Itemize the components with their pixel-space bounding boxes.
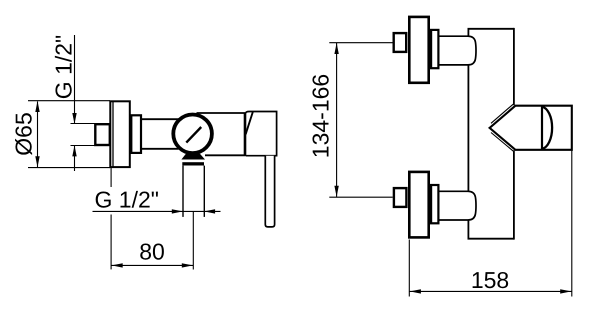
- lever rod: [265, 156, 274, 227]
- body right edge lower: [513, 150, 515, 239]
- dimension G 1/2" top dim line upper segment: [74, 35, 76, 124]
- dimension Ø65 extension line bottom: [28, 167, 110, 169]
- handle base diagonal: [246, 112, 253, 134]
- arrow left at pipe right: [204, 209, 215, 213]
- 134-166 extension line bottom: [329, 196, 392, 198]
- center extension line below outlet: [192, 211, 194, 269]
- arrow down 134-166: [334, 186, 338, 197]
- bottom escutcheon: [409, 172, 428, 238]
- arrow left 158: [410, 289, 421, 293]
- pentagon upper chamfer thin line: [491, 104, 514, 123]
- body right bottom line: [205, 154, 246, 156]
- lever end D flat line: [541, 106, 543, 150]
- dimension G 1/2" top dim line lower segment: [74, 146, 76, 171]
- arrow down G1/2 top: [72, 113, 76, 124]
- 80 extension line left upper segment: [110, 168, 112, 187]
- lever end D arc: [542, 107, 552, 149]
- top escutcheon: [409, 17, 428, 83]
- handle mark diagonal: [186, 127, 201, 143]
- arrow left 80: [112, 263, 123, 267]
- 80 dim line: [111, 264, 193, 266]
- wall plate: [110, 101, 130, 167]
- step ring: [131, 115, 141, 153]
- body right top line: [197, 112, 246, 114]
- 158 extension line right: [571, 151, 573, 297]
- dimension Ø65 dim line: [37, 102, 39, 168]
- pentagon lower chamfer thin line: [491, 133, 514, 152]
- lever pentagon: [490, 106, 572, 150]
- top pipe with bell cap: [440, 36, 477, 65]
- body bottom edge: [468, 238, 514, 240]
- outlet nut bar (black): [182, 162, 204, 165]
- 134-166 extension line top: [329, 42, 392, 44]
- body left edge segment top: [467, 29, 469, 36]
- body top edge: [468, 28, 514, 30]
- joint thick vertical line: [244, 113, 247, 156]
- body left edge segment middle: [467, 65, 469, 191]
- arrow down Ø65: [35, 156, 39, 167]
- 158 dim line: [410, 290, 572, 292]
- body left edge segment bottom: [467, 220, 469, 239]
- outlet pipe left line: [182, 166, 184, 217]
- svg-text:80: 80: [139, 239, 165, 265]
- top step ring: [431, 30, 438, 68]
- arrow right 158: [560, 289, 571, 293]
- body outline: [468, 28, 514, 240]
- bottom fitting square nut: [394, 188, 407, 207]
- svg-text:G 1/2": G 1/2": [51, 35, 77, 99]
- body cylinder top line: [142, 118, 179, 120]
- cartridge circle: [173, 115, 212, 154]
- outlet pipe right line: [203, 166, 205, 217]
- 134-166 dim line: [336, 43, 338, 197]
- body right edge upper: [513, 28, 515, 105]
- 80 extension line left lower segment: [110, 215, 112, 270]
- bottom pipe with bell cap: [440, 191, 477, 220]
- arrow right 80: [182, 263, 193, 267]
- svg-text:158: 158: [471, 267, 509, 293]
- outlet collar (black): [181, 154, 205, 160]
- svg-text:Ø65: Ø65: [11, 112, 37, 155]
- arrow up G1/2 top: [72, 145, 76, 156]
- bottom step ring: [431, 185, 438, 223]
- extension line square bottom: [71, 145, 96, 147]
- leader line segment between pipe and right tail: [183, 210, 221, 212]
- svg-text:134-166: 134-166: [308, 74, 334, 158]
- wall plate inner line: [112, 101, 114, 168]
- arrow up Ø65: [35, 101, 39, 112]
- handle base outline: [246, 112, 277, 156]
- body cylinder bottom line: [142, 148, 179, 150]
- dimension Ø65 extension line top: [28, 100, 110, 102]
- inlet square end cap: [95, 124, 110, 145]
- svg-text:G 1/2": G 1/2": [95, 187, 159, 213]
- leader line G1/2 bottom left: [93, 210, 183, 212]
- top fitting square nut: [394, 33, 407, 52]
- arrow up 134-166: [334, 43, 338, 54]
- arrow right at pipe left: [172, 209, 183, 213]
- 158 extension line left: [408, 240, 410, 297]
- extension line square top: [71, 123, 96, 125]
